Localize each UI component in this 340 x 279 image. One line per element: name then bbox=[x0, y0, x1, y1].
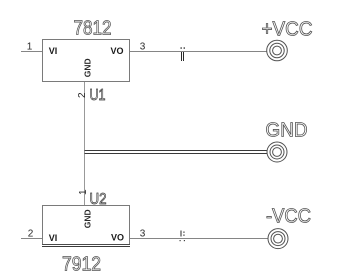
svg-text:3: 3 bbox=[140, 42, 146, 53]
svg-text:GND: GND bbox=[266, 120, 308, 142]
svg-text:7812: 7812 bbox=[74, 18, 112, 40]
svg-text:+VCC: +VCC bbox=[262, 19, 313, 41]
svg-text:VI: VI bbox=[49, 233, 58, 243]
terminal GND bbox=[267, 142, 287, 162]
svg-text:GND: GND bbox=[82, 58, 92, 77]
svg-text:7912: 7912 bbox=[62, 254, 101, 276]
regulator U1 body (7812) bbox=[43, 40, 130, 82]
wire U1 pin2 down to GND rail and U2 pin1 bbox=[84, 82, 86, 205]
regulator U2 body (7912) bbox=[43, 206, 130, 245]
svg-text:U1: U1 bbox=[90, 87, 106, 104]
GND rail (double wire) bbox=[85, 150, 268, 152]
wire U2 pin3 to -VCC terminal bbox=[130, 238, 268, 240]
svg-text:1: 1 bbox=[27, 42, 33, 53]
U2 bottom edge emphasis bbox=[42, 244, 130, 246]
wire U1 pin1 input bbox=[21, 51, 42, 53]
junction mark on +VCC wire bbox=[182, 52, 184, 61]
wire U2 pin2 input bbox=[21, 238, 42, 240]
svg-text:VO: VO bbox=[111, 232, 124, 242]
svg-text:VI: VI bbox=[49, 46, 58, 56]
junction mark on -VCC wire bbox=[180, 231, 182, 237]
svg-text:3: 3 bbox=[140, 228, 146, 239]
svg-text:-VCC: -VCC bbox=[266, 206, 311, 228]
svg-text:2: 2 bbox=[77, 92, 88, 98]
svg-text:2: 2 bbox=[28, 228, 34, 239]
terminal -VCC bbox=[268, 229, 288, 249]
wire U1 pin3 to +VCC terminal bbox=[130, 51, 267, 53]
svg-text:GND: GND bbox=[82, 209, 92, 228]
terminal +VCC bbox=[267, 40, 288, 61]
svg-text:1: 1 bbox=[78, 189, 89, 195]
svg-text:VO: VO bbox=[111, 46, 124, 56]
